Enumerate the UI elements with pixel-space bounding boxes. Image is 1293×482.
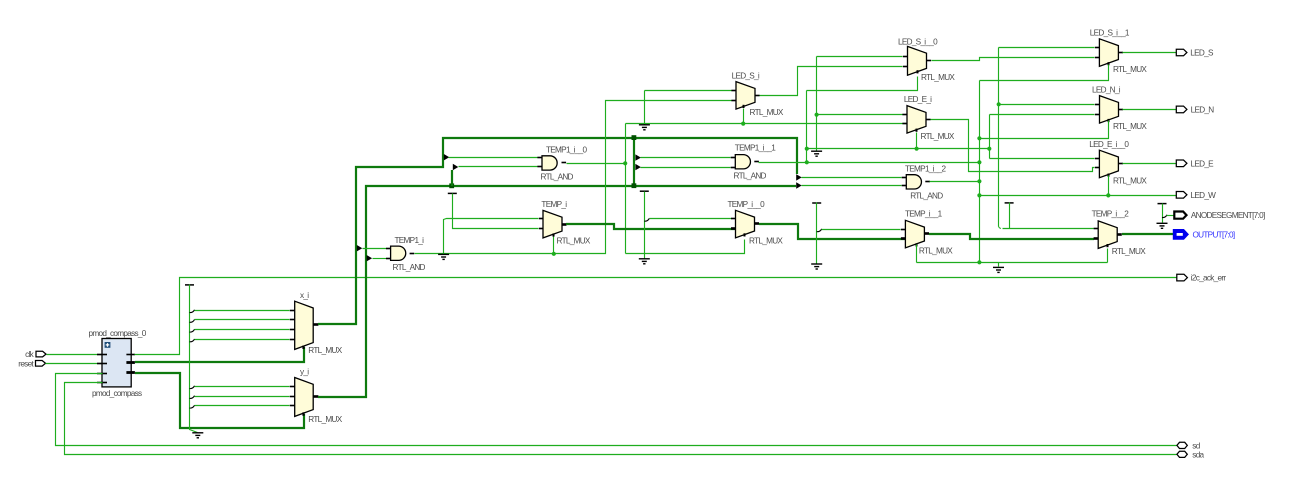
svg-text:TEMP1_i: TEMP1_i xyxy=(395,236,425,245)
svg-text:LED_N: LED_N xyxy=(1191,105,1215,114)
and-gate TEMP1_i__0 xyxy=(542,156,557,170)
junction LED_E_i__0 select on LED_W net xyxy=(1106,193,1110,197)
wire LED_S_i output to LED_S_i__0 in2 xyxy=(760,67,903,96)
bus TEMP_i output to TEMP_i__0 in2 xyxy=(566,224,735,229)
bus tap for x_i data input 3 xyxy=(190,339,195,342)
svg-text:RTL_MUX: RTL_MUX xyxy=(308,415,342,424)
junction x=979.4 y=195.4 xyxy=(977,193,981,197)
junction LED_E_i select stub xyxy=(915,147,919,151)
svg-text:ANODESEGMENT[7:0]: ANODESEGMENT[7:0] xyxy=(1191,211,1265,220)
bus TEMP_i__0 output to TEMP_i__1 in2 xyxy=(759,224,905,239)
TEMP_i__2 output pin xyxy=(1117,233,1122,236)
svg-text:pmod_compass: pmod_compass xyxy=(92,389,142,398)
junction select row at x=979.4 xyxy=(977,260,981,264)
wire TEMP1_i__2 input 2 xyxy=(802,185,902,187)
LED_S_i__0 select pin stub xyxy=(917,70,919,73)
wire LED_S_i select stub xyxy=(743,109,745,124)
wire LED_N_i input 1 xyxy=(999,104,1095,106)
wire LED_S_i__1 input 1 xyxy=(999,47,1095,49)
ground-const column for TEMP_i__0 (upper, LED_S_i in1) xyxy=(644,91,646,125)
svg-text:LED_N_i: LED_N_i xyxy=(1092,85,1121,94)
output port LED_W xyxy=(1176,192,1187,199)
wire LED_E_i__0 select xyxy=(1108,176,1110,196)
junction TEMP_i select on TEMP1_i net xyxy=(552,252,556,256)
svg-text:LED_E: LED_E xyxy=(1191,159,1215,168)
mux LED_S_i__1 xyxy=(1099,39,1118,67)
bus junction at y bus / x=634 xyxy=(632,183,637,188)
svg-text:y_i: y_i xyxy=(300,367,309,376)
wire clk to pmod_compass_0 xyxy=(47,354,103,356)
junction TEMP1_i__1 net at x=806.8 xyxy=(805,160,809,164)
bus junction on y bus at x=451.7 xyxy=(449,183,454,188)
svg-text:x_i: x_i xyxy=(300,291,309,300)
wire LED_E_i select row y=148.7 xyxy=(807,148,990,150)
bus tap for y_i data input 1 xyxy=(190,396,195,399)
wire LED_N_i input 2 xyxy=(990,114,1095,116)
ground glyph x=816.6 xyxy=(811,151,822,156)
svg-text:TEMP_i__1: TEMP_i__1 xyxy=(905,209,943,218)
LED_S_i output pin xyxy=(755,95,760,97)
arrowhead tap to TEMP1_i__0 in2 xyxy=(453,164,459,170)
junction LED_E_i input 1 xyxy=(815,113,819,117)
wire LED_N_i output to port xyxy=(1123,109,1177,111)
LED_E_i select pin stub xyxy=(916,129,918,132)
bus tap for TEMP_i__0 in1 xyxy=(644,218,649,221)
wire LED_W net row y=195.4 xyxy=(980,195,1177,197)
svg-text:pmod_compass_0: pmod_compass_0 xyxy=(89,329,147,338)
ground glyph for ANODESEGMENT xyxy=(1157,223,1168,228)
svg-text:RTL_MUX: RTL_MUX xyxy=(749,237,783,246)
junction x=979.4 y=162.3 xyxy=(977,160,981,164)
wire TEMP_i__1 input 1 xyxy=(822,229,901,231)
pmod_compass_0 right pin 3 (bus, y sel) xyxy=(126,371,134,374)
constant bar for TEMP_i__0 in1 xyxy=(640,190,649,192)
mux LED_S_i xyxy=(736,82,755,110)
wire TEMP_i select stub xyxy=(553,237,555,254)
bus y_i output (to y and-gate taps / TEMP1 chain) xyxy=(318,186,796,397)
junction at (806.8,148.7) xyxy=(805,147,809,151)
bus tap for y_i data input 2 xyxy=(190,405,195,408)
bus y_i select: pmod pin3 down, right, up to y_i mux select xyxy=(135,373,304,428)
LED_S_i__0 output pin xyxy=(927,60,932,62)
ground for TEMP_i input 1 xyxy=(438,254,449,259)
junction x=979.4 y=138.3 xyxy=(977,136,981,140)
junction x=998.7 y=104.3 xyxy=(997,102,1001,106)
TEMP_i output pin xyxy=(562,223,567,226)
tap arc to TEMP_i__2 in1 row xyxy=(999,226,1002,229)
output port LED_S xyxy=(1176,49,1187,56)
ground glyph upper x=644 xyxy=(639,125,650,130)
arrowhead x bus end tap to TEMP1_i__2 in1 xyxy=(796,174,802,180)
svg-text:RTL_AND: RTL_AND xyxy=(541,173,574,182)
wire TEMP1_i__2 input 1 xyxy=(802,177,902,179)
mux LED_S_i__0 xyxy=(908,46,927,75)
svg-text:TEMP_i__0: TEMP_i__0 xyxy=(728,200,766,209)
output port ANODESEGMENT[7:0] (bus, thick) xyxy=(1174,212,1186,219)
svg-text:LED_S_i__0: LED_S_i__0 xyxy=(898,38,938,47)
constant bar for TEMP_i in2 xyxy=(448,192,457,194)
arrowhead tap x bus vertical to TEMP1_i__0 in1 xyxy=(444,154,450,160)
svg-text:RTL_MUX: RTL_MUX xyxy=(1112,247,1146,256)
constant-ground column x=816.7 for TEMP_i__1 in1 xyxy=(812,202,821,204)
wire TEMP1_i output net (TEMP_i select, LED_S_i data2) xyxy=(415,101,732,254)
mux y_i xyxy=(295,378,314,417)
ground glyph lower x=644 xyxy=(639,259,650,264)
and-gate TEMP1_i__2 xyxy=(906,175,921,189)
svg-text:TEMP_i: TEMP_i xyxy=(541,200,567,209)
mux x_i xyxy=(295,301,314,349)
mux LED_E_i xyxy=(907,106,926,134)
mux LED_N_i xyxy=(1100,96,1119,124)
svg-text:RTL_MUX: RTL_MUX xyxy=(1113,176,1147,185)
wire ground branch for TEMP_i input 1 xyxy=(444,219,539,255)
pmod_compass_0 left pin 2 (reset) xyxy=(97,363,107,365)
wire sd net: pmod left pin3 down and right to port xyxy=(56,374,1177,446)
constant-ground column x=816.6 (LED_S_i__0 in1, LED_E_i in1) xyxy=(816,57,818,151)
mux TEMP_i xyxy=(543,210,562,238)
arrowhead tap x bus to TEMP1_i in1 xyxy=(357,245,363,251)
x_i output pin xyxy=(313,323,318,326)
svg-text:TEMP1_i__2: TEMP1_i__2 xyxy=(905,165,946,174)
junction on select column xyxy=(623,161,627,165)
pmod_compass_0 left pin 1 (clk) xyxy=(97,354,107,356)
wire reset to pmod_compass_0 xyxy=(46,363,103,365)
svg-text:reset: reset xyxy=(18,359,34,368)
svg-text:RTL_MUX: RTL_MUX xyxy=(919,246,953,255)
ground for input column xyxy=(192,433,203,438)
pmod_compass_0 right pin 2 (bus, x sel) xyxy=(126,361,134,364)
TEMP_i__0 select pin stub xyxy=(744,233,746,236)
bus junction at x bus / x=634 xyxy=(632,135,637,140)
mux TEMP_i__0 xyxy=(736,210,755,238)
arrowhead-fed wire TEMP1_i__1 input 2 from x=634 bus xyxy=(635,164,641,170)
LED_E_i__0 select pin stub xyxy=(1108,174,1110,177)
wire sda net: pmod left pin4 down and right to port xyxy=(65,383,1177,455)
TEMP_i__1 select pin stub xyxy=(916,243,918,246)
TEMP1_i__2 output pin xyxy=(925,181,930,183)
svg-text:sda: sda xyxy=(1192,451,1204,460)
constant bar (vcc) feeding input column xyxy=(185,284,194,286)
output port LED_E xyxy=(1176,160,1187,167)
constant-ground for ANODESEGMENT xyxy=(1158,203,1167,205)
wire const column x=644 to ground xyxy=(644,192,646,259)
wire TEMP1_i__1 net vertical x=806.8 xyxy=(806,91,808,163)
pmod_compass_0 left pin 3 (sd) xyxy=(97,373,107,375)
TEMP_i__0 output pin xyxy=(755,222,760,225)
svg-text:LED_S_i: LED_S_i xyxy=(732,71,760,80)
wire LED_E_i__0 output to port xyxy=(1123,163,1177,165)
wire TEMP1_i__1 net vertical x=989.3 (LED_N_i in2 / LED_E_i__0 in1) xyxy=(989,115,991,159)
wire TEMP1_i__2 select column x=979.4 xyxy=(979,81,981,263)
wire LED_E_i select stub xyxy=(916,133,918,149)
wire y_i data input 0 xyxy=(195,386,290,388)
wire LED_E_i__0 input 1 xyxy=(990,158,1095,160)
bus vertical link between x and y buses at x=634 xyxy=(633,138,635,186)
bus tap for x_i data input 1 xyxy=(190,320,195,323)
svg-text:RTL_MUX: RTL_MUX xyxy=(557,237,591,246)
wire TEMP_i__1 select stub xyxy=(916,245,918,263)
TEMP1_i__1 output pin xyxy=(754,161,759,163)
y_i output pin xyxy=(313,395,318,398)
wire y_i data input 1 xyxy=(195,396,290,398)
TEMP_i select pin stub xyxy=(553,233,555,236)
wire select row y=262.3 (TEMP_i__1 / TEMP_i__2 selects) xyxy=(917,262,1108,264)
wire select row y=253.4 to TEMP_i__0 select xyxy=(626,240,745,254)
wire LED_S_i__0 input 1 xyxy=(817,56,903,58)
pmod_compass_0 left pin 4 (sda) xyxy=(97,382,107,384)
svg-text:i2c_ack_err: i2c_ack_err xyxy=(1191,274,1227,283)
wire select column vertical x=625 xyxy=(625,124,627,254)
svg-text:RTL_AND: RTL_AND xyxy=(734,171,767,180)
wire TEMP1_i__0 output net (select column x=625) xyxy=(567,163,626,165)
wire const to TEMP_i input 2 xyxy=(453,194,539,229)
junction at (989.3,148.7) xyxy=(987,147,991,151)
svg-text:LED_S: LED_S xyxy=(1190,49,1214,58)
wire TEMP_i__2 input 1 row xyxy=(1003,228,1094,230)
wire x_i data input 1 xyxy=(195,319,290,321)
wire select row y=123.6 (LED_S_i select, LED_E_i data2) xyxy=(626,123,907,125)
TEMP_i__2 select pin stub xyxy=(1107,244,1109,247)
svg-text:sd: sd xyxy=(1192,442,1200,451)
wire TEMP1_i__1 output net row y=162.3 xyxy=(759,162,980,164)
wire TEMP1_i__0 input 2 xyxy=(459,166,538,168)
svg-text:RTL_MUX: RTL_MUX xyxy=(750,108,784,117)
inout port sda xyxy=(1177,451,1187,457)
wire LED_N_i select xyxy=(980,121,1109,139)
and-gate TEMP1_i xyxy=(391,246,406,260)
bus TEMP_i__1 output to TEMP_i__2 in2 xyxy=(929,234,1094,239)
pmod_compass_0 right pin 1 (i2c_ack_err) xyxy=(126,354,134,356)
wire x_i data input 3 xyxy=(195,339,290,341)
wire LED_S_i__0 net vertical x=998.7 xyxy=(998,48,1000,227)
bus tap for TEMP_i__1 in1 xyxy=(817,229,822,232)
LED_E_i output pin xyxy=(926,119,931,121)
input port clk xyxy=(36,351,46,357)
inout port sd xyxy=(1177,442,1187,448)
ground glyph x=816.7 xyxy=(811,264,822,269)
bus tap for y_i data input 0 xyxy=(190,386,195,389)
ground glyph x=998.5 y=265.8 xyxy=(993,267,1004,272)
LED_S_i select pin stub xyxy=(743,105,745,108)
bus x_i select: pmod pin2 to x_i mux select xyxy=(135,347,304,362)
svg-text:RTL_MUX: RTL_MUX xyxy=(921,132,955,141)
wire TEMP1_i__2 output xyxy=(930,181,980,183)
svg-text:LED_E_i: LED_E_i xyxy=(904,95,932,104)
mux TEMP_i__2 xyxy=(1098,221,1117,249)
LED_N_i output pin xyxy=(1118,109,1123,111)
svg-text:TEMP1_i__0: TEMP1_i__0 xyxy=(546,145,587,154)
svg-text:RTL_MUX: RTL_MUX xyxy=(921,73,955,82)
arrowhead-fed wire TEMP1_i__1 input 1 from x=634 bus xyxy=(635,154,641,160)
wire x_i data input 2 xyxy=(195,329,290,331)
arrowhead tap y bus to TEMP1_i in2 xyxy=(367,255,373,261)
junction x=979.4 y=181.3 xyxy=(977,179,981,183)
wire ANODESEGMENT to port xyxy=(1167,215,1175,217)
wire LED_S_i input 1 xyxy=(645,90,732,92)
LED_S_i__1 output pin xyxy=(1118,52,1123,54)
svg-text:LED_S_i__1: LED_S_i__1 xyxy=(1090,28,1130,37)
TEMP1_i output pin xyxy=(410,253,415,255)
LED_N_i select pin stub xyxy=(1108,119,1110,122)
wire x_i data input 0 xyxy=(195,310,290,312)
mux TEMP_i__1 xyxy=(905,220,924,248)
x_i select pin stub xyxy=(302,346,304,350)
input port reset xyxy=(36,361,46,367)
wire y_i data input 2 xyxy=(195,405,290,407)
svg-text:RTL_MUX: RTL_MUX xyxy=(308,346,342,355)
arrowhead y bus end tap to TEMP1_i__2 in2 xyxy=(796,182,802,188)
svg-text:LED_E_i__0: LED_E_i__0 xyxy=(1089,140,1129,149)
bus stub up from y bus junction to TEMP1_i__0 in2 arrow xyxy=(451,170,453,186)
wire TEMP1_i input 1 xyxy=(363,248,387,250)
svg-text:TEMP_i__2: TEMP_i__2 xyxy=(1092,210,1130,219)
wire LED_E_i output to LED_E_i__0 in2 xyxy=(931,120,1095,172)
TEMP1_i__0 output pin xyxy=(562,162,567,164)
output port OUTPUT[7:0] (selected, blue) xyxy=(1173,230,1188,240)
LED_S_i__1 select pin stub xyxy=(1108,62,1110,65)
bus tap for ANODESEGMENT xyxy=(1162,215,1167,218)
wire i2c_ack_err net: pmod pin1 up and right to port xyxy=(135,278,1177,355)
wire LED_S_i__0 output net xyxy=(932,58,1095,61)
TEMP_i__1 output pin xyxy=(924,232,929,235)
svg-text:OUTPUT[7:0]: OUTPUT[7:0] xyxy=(1193,231,1235,240)
svg-text:TEMP1_i__1: TEMP1_i__1 xyxy=(735,144,776,153)
LED_E_i__0 output pin xyxy=(1118,163,1123,165)
wire constant column vertical xyxy=(190,285,198,433)
wire TEMP1_i input 2 xyxy=(373,258,387,260)
svg-text:RTL_MUX: RTL_MUX xyxy=(1113,65,1147,74)
bus tap for x_i data input 2 xyxy=(190,329,195,332)
junction LED_S_i select xyxy=(741,122,745,126)
svg-text:RTL_MUX: RTL_MUX xyxy=(1113,122,1147,131)
wire LED_S_i__1 output to port xyxy=(1123,52,1177,54)
output port LED_N xyxy=(1176,106,1187,113)
svg-text:RTL_AND: RTL_AND xyxy=(393,263,426,272)
wire TEMP1_i__0 input 1 xyxy=(449,157,538,159)
svg-text:RTL_AND: RTL_AND xyxy=(910,191,943,200)
mux LED_E_i__0 xyxy=(1099,150,1118,178)
wire TEMP_i__0 input 1 xyxy=(650,218,732,220)
and-gate TEMP1_i__1 xyxy=(735,155,750,169)
wire TEMP_i__2 select stub xyxy=(1107,249,1109,263)
output port i2c_ack_err xyxy=(1177,274,1188,281)
IP block pmod_compass_0 xyxy=(102,339,131,387)
bus tap for x_i data input 0 xyxy=(190,310,195,313)
bus x_i output (to x and-gate taps / TEMP1 chain) xyxy=(318,138,797,324)
constant bar for TEMP_i__2 in1 xyxy=(1005,202,1014,204)
bus TEMP_i__2 output to OUTPUT port xyxy=(1122,233,1173,235)
wire LED_S_i__0 select row y=90.3 xyxy=(807,77,918,91)
wire LED_S_i__1 select xyxy=(980,65,1109,81)
wire const x=1009.1 down to row xyxy=(1009,203,1011,229)
wire LED_E_i input 1 xyxy=(817,114,903,116)
ground stub on select row x=998.5 xyxy=(998,263,1000,267)
y_i select pin stub xyxy=(302,412,304,416)
svg-text:LED_W: LED_W xyxy=(1191,191,1217,200)
